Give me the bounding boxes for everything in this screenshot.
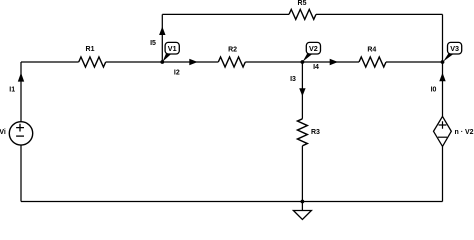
svg-text:I5: I5	[150, 40, 156, 47]
wire node V1 up to top rail	[161, 14, 163, 62]
svg-text:R4: R4	[367, 47, 376, 54]
svg-text:V3: V3	[450, 44, 459, 53]
svg-text:R1: R1	[86, 46, 95, 53]
current arrow I4	[330, 59, 338, 65]
wire top rail left of R5	[162, 13, 289, 15]
current arrow I3	[299, 88, 305, 96]
svg-text:I2: I2	[174, 69, 180, 76]
junction ground dot	[301, 200, 305, 204]
resistor R1	[79, 57, 106, 67]
svg-text:R2: R2	[228, 47, 237, 54]
svg-text:I0: I0	[431, 86, 437, 93]
svg-text:I3: I3	[290, 76, 296, 83]
junction node V3 dot	[441, 60, 445, 64]
wire main horizontal segment Vi corner to R1	[21, 61, 79, 63]
resistor R3 (vertical)	[297, 119, 307, 146]
ground	[301, 202, 303, 211]
resistor R4	[359, 57, 386, 67]
voltage source Vi minus sign	[16, 135, 24, 137]
svg-text:I4: I4	[313, 64, 319, 71]
wire R1 to R2 through node V1	[106, 61, 219, 63]
wire R2 to R4 through node V2	[245, 61, 359, 63]
current arrow I0	[439, 73, 445, 82]
junction node V2 dot	[301, 60, 305, 64]
current arrow I2	[189, 59, 197, 65]
wire node V3 down to dependent source	[442, 62, 444, 116]
current arrow I1	[18, 73, 24, 82]
junction node V1 dot	[160, 60, 164, 64]
svg-text:Vi: Vi	[0, 129, 6, 136]
voltage source Vi plus sign	[16, 124, 24, 132]
dependent source plus sign	[439, 121, 447, 129]
svg-text:R5: R5	[298, 0, 307, 7]
svg-text:R3: R3	[311, 129, 320, 136]
resistor R2	[218, 57, 245, 67]
wire dependent source to bottom rail	[442, 146, 444, 201]
svg-text:V2: V2	[309, 44, 318, 53]
wire top rail right of R5	[316, 13, 443, 15]
resistor R5	[289, 9, 316, 19]
voltage source Vi circle	[9, 122, 32, 145]
svg-text:V1: V1	[168, 44, 177, 53]
dependent source diamond	[434, 116, 452, 146]
wire R3 to bottom rail	[301, 146, 303, 202]
svg-text:n · V2: n · V2	[455, 129, 474, 136]
wire R4 to node V3	[386, 61, 443, 63]
current arrow I5	[159, 27, 165, 36]
node callout V1	[163, 53, 172, 61]
svg-text:I1: I1	[9, 86, 15, 93]
wire bottom rail	[21, 201, 443, 203]
wire left vertical bottom (Vi to bottom rail)	[20, 145, 22, 202]
wire node V2 down to R3	[301, 62, 303, 119]
wire top rail down to node V3	[442, 14, 444, 62]
wire left vertical top (Vi to main node row)	[20, 62, 22, 122]
node callout V3	[443, 53, 454, 61]
dependent source minus sign	[438, 136, 447, 138]
node callout V2	[303, 53, 314, 61]
